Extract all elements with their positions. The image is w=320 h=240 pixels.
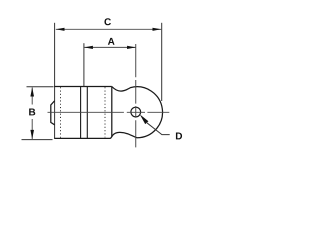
left tab protrusion bbox=[51, 101, 55, 125]
A left extension line bbox=[83, 43, 85, 86]
C dimension line bbox=[56, 28, 161, 30]
B top arrow bbox=[30, 87, 34, 96]
D leader line bbox=[147, 123, 170, 135]
A left arrow bbox=[84, 46, 93, 49]
B dimension line lower bbox=[31, 119, 33, 139]
hidden line 2 bbox=[104, 87, 106, 137]
groove line right bbox=[86, 87, 88, 139]
A dimension line bbox=[84, 46, 136, 48]
A right arrow bbox=[127, 46, 136, 49]
C left arrow bbox=[56, 28, 65, 31]
B dimension line upper bbox=[31, 88, 33, 105]
hidden line 1 bbox=[60, 87, 62, 138]
A label bbox=[108, 38, 115, 45]
body bottom edge bbox=[54, 137, 110, 139]
B label bbox=[29, 109, 35, 116]
vertical centerline / A right extension bbox=[135, 44, 137, 147]
body right edge bbox=[111, 87, 113, 137]
D label bbox=[176, 133, 182, 140]
neck and ball outline bbox=[111, 87, 163, 139]
D leader arrowhead bbox=[140, 114, 149, 124]
groove line left bbox=[80, 87, 82, 139]
body top edge bbox=[54, 86, 112, 88]
hole circle bbox=[131, 107, 141, 117]
C right arrow bbox=[153, 28, 162, 31]
body left edge with C extension line bbox=[54, 23, 56, 139]
B top extension line bbox=[27, 86, 54, 88]
C label bbox=[104, 18, 111, 25]
C right extension line bbox=[161, 23, 163, 101]
horizontal centerline bbox=[48, 111, 170, 113]
B bottom extension line bbox=[22, 139, 53, 141]
B bottom arrow bbox=[30, 130, 34, 139]
